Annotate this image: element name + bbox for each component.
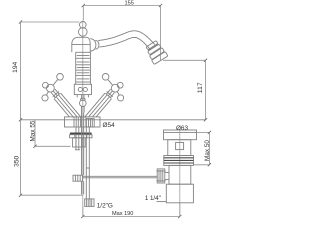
dim 194 top ext — [21, 21, 80, 23]
ext 155 left — [82, 6, 84, 21]
supply connector nut — [85, 199, 94, 207]
svg-text:Max 50: Max 50 — [204, 140, 211, 161]
spout collar — [90, 39, 96, 52]
aerator ring 3 — [149, 48, 164, 60]
svg-text:Max 190: Max 190 — [112, 211, 133, 217]
popup vertical rod — [81, 112, 83, 175]
waste bottom left lip — [157, 201, 167, 203]
threaded rod end tick — [75, 149, 80, 151]
dim Max50 bottom ext — [194, 164, 210, 166]
svg-text:1 1/4": 1 1/4" — [145, 195, 161, 202]
waste bottom section — [166, 184, 193, 203]
finial large ball — [79, 28, 88, 37]
left arm — [55, 89, 59, 94]
right arm — [111, 93, 115, 98]
aerator band separators — [148, 44, 158, 51]
waste locknut — [164, 156, 194, 166]
dim Max55 bottom ext — [35, 145, 71, 147]
rod ball joint — [157, 169, 165, 183]
valve box — [74, 84, 91, 94]
dim Max55 line — [34, 120, 36, 147]
dim Max190 left ext — [82, 207, 84, 217]
dim Max50 line — [208, 132, 210, 164]
dim 155 line — [83, 5, 160, 7]
base inner verticals — [73, 117, 75, 127]
dim Max190 line — [83, 216, 180, 218]
base clamp box — [86, 119, 94, 127]
gasket thick line — [70, 133, 92, 135]
left handle cross — [47, 84, 55, 92]
neck right edge — [89, 52, 91, 84]
faucet centerline — [82, 21, 84, 217]
dim 117 top ext — [163, 59, 206, 61]
dim 117 line — [205, 60, 207, 120]
popup knob stem — [81, 106, 83, 112]
popup rod clamp — [73, 175, 83, 181]
washer — [70, 135, 92, 138]
spout top edge — [98, 31, 155, 45]
supply hose — [85, 127, 87, 199]
dim Max50 top ext — [197, 131, 210, 133]
dim 350 line — [20, 120, 22, 195]
svg-text:155: 155 — [125, 1, 134, 7]
dim 350 bottom ext — [21, 194, 83, 196]
dim Max190 right ext — [179, 203, 181, 217]
svg-text:1/2"G: 1/2"G — [97, 202, 113, 209]
aerator ring 2 — [148, 44, 161, 55]
finial small ball — [80, 22, 87, 29]
waste inner square — [176, 143, 184, 150]
body shoulder nubs — [76, 95, 78, 98]
waste flange — [164, 130, 197, 140]
waste upper body — [168, 140, 191, 156]
threaded rod — [75, 127, 77, 150]
aerator ring 1 — [146, 41, 158, 50]
head dome — [72, 37, 90, 52]
svg-text:117: 117 — [197, 82, 204, 93]
waste flange lip — [164, 131, 197, 133]
svg-text:194: 194 — [12, 61, 19, 72]
right handle cross — [111, 84, 119, 92]
aerator outlet ring — [151, 52, 167, 65]
svg-text:Ø63: Ø63 — [176, 125, 189, 132]
ext 155 right — [160, 6, 162, 61]
neck left edge — [75, 52, 77, 84]
joint link lines — [165, 172, 169, 174]
valve indicator circles — [78, 87, 82, 91]
base flange — [65, 117, 101, 127]
svg-text:Ø54: Ø54 — [103, 122, 116, 129]
svg-text:350: 350 — [13, 155, 20, 166]
surface line — [21, 119, 206, 121]
popup knob upper stem — [81, 95, 83, 99]
waste lower body — [169, 165, 191, 184]
svg-text:Max 55: Max 55 — [30, 120, 37, 141]
popup knob — [80, 100, 87, 107]
popup knob collar — [81, 98, 86, 100]
waste centerline — [179, 131, 181, 217]
dim 194 line — [20, 22, 22, 120]
spout bottom edge — [99, 37, 150, 49]
horizontal popup rod — [83, 175, 158, 177]
hose tick — [86, 167, 90, 169]
neck ribs — [76, 51, 91, 53]
mounting nut — [73, 138, 86, 147]
